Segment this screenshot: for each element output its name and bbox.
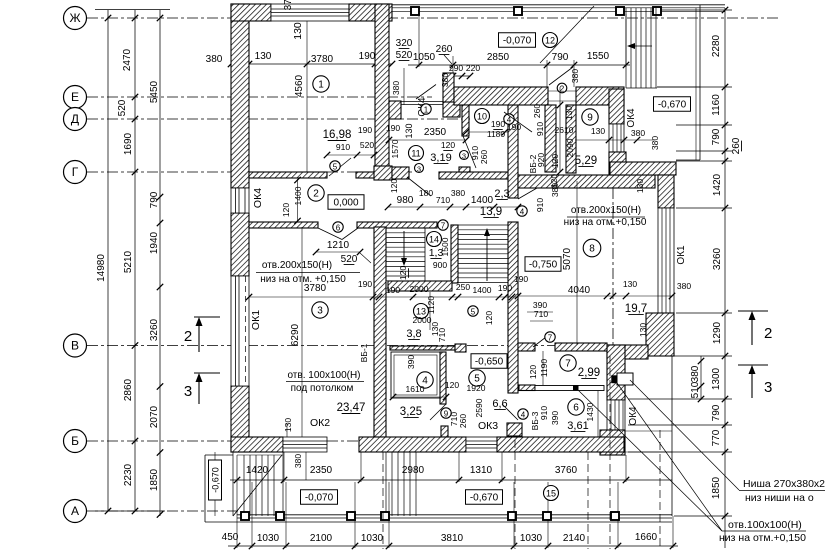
door4 bubble a — [504, 114, 514, 124]
svg-text:2230: 2230 — [123, 463, 134, 486]
svg-text:3780: 3780 — [311, 54, 334, 65]
svg-text:2000: 2000 — [413, 315, 432, 325]
window OK1 right — [658, 208, 674, 313]
top extensions — [418, 12, 420, 67]
room6 label — [568, 399, 584, 415]
svg-text:120: 120 — [528, 365, 538, 379]
svg-text:120: 120 — [441, 140, 455, 150]
svg-text:отв.200х150(Н): отв.200х150(Н) — [262, 260, 332, 271]
room8 label — [583, 239, 601, 257]
svg-text:3260: 3260 — [712, 247, 723, 270]
svg-text:6290: 6290 — [290, 323, 301, 346]
svg-text:4: 4 — [520, 207, 525, 216]
svg-text:1850: 1850 — [149, 468, 160, 491]
level 0.000 — [328, 195, 364, 210]
svg-text:под потолком: под потолком — [291, 383, 354, 394]
svg-text:520: 520 — [341, 254, 358, 265]
wall room8 northeast band — [610, 162, 676, 175]
svg-text:1210: 1210 — [327, 240, 350, 251]
svg-text:6: 6 — [336, 223, 341, 232]
wall room3 east / stair west — [374, 227, 386, 437]
svg-text:380: 380 — [451, 188, 465, 198]
top chain dim line — [408, 64, 630, 66]
wall room1 south junction — [374, 166, 392, 180]
svg-text:1660: 1660 — [635, 532, 658, 543]
svg-text:380: 380 — [440, 73, 450, 87]
svg-text:8: 8 — [589, 243, 595, 254]
svg-text:1400: 1400 — [471, 195, 494, 206]
wall north block top east — [576, 87, 624, 105]
bottom extensions — [236, 455, 238, 548]
svg-text:2350: 2350 — [424, 127, 447, 138]
svg-text:-0,670: -0,670 — [658, 99, 687, 110]
svg-text:2: 2 — [764, 325, 772, 342]
svg-text:-0,670: -0,670 — [470, 492, 499, 503]
svg-text:790: 790 — [149, 191, 160, 208]
svg-text:1190: 1190 — [539, 359, 549, 378]
wall room7 north west part — [518, 343, 535, 351]
svg-text:190: 190 — [358, 279, 372, 289]
svg-text:ОК2: ОК2 — [310, 417, 330, 429]
axis 6 vertical line — [612, 88, 614, 455]
svg-text:120: 120 — [398, 266, 408, 280]
wall left exterior upper — [231, 4, 249, 188]
svg-text:13,9: 13,9 — [480, 206, 502, 218]
door5 bubble — [330, 161, 340, 171]
wall hall south — [249, 222, 318, 228]
svg-text:2470: 2470 — [122, 48, 133, 71]
door4 bubble c — [518, 409, 528, 419]
svg-text:1920: 1920 — [467, 383, 486, 393]
svg-text:1420: 1420 — [246, 465, 269, 476]
svg-text:380: 380 — [391, 81, 401, 95]
niche leader 2 — [577, 389, 722, 531]
svg-text:1500: 1500 — [440, 237, 450, 256]
wall divider stub — [459, 167, 470, 172]
wall room8 north — [518, 175, 655, 188]
door 7 opening — [533, 334, 550, 347]
wall stair middle lower — [508, 222, 518, 393]
stair lower band — [388, 281, 452, 291]
axis bubble Г — [64, 161, 87, 184]
niche leader 3 — [617, 383, 722, 531]
svg-text:980: 980 — [397, 195, 414, 206]
svg-text:190: 190 — [498, 283, 512, 293]
bottom dim line 1 — [230, 479, 672, 481]
wall top-left — [231, 4, 271, 21]
wall room11 pier — [389, 101, 401, 119]
svg-text:1: 1 — [318, 79, 324, 90]
wall rooms10-11 divider — [462, 105, 469, 136]
svg-text:380: 380 — [690, 365, 701, 382]
room15 label — [544, 486, 559, 501]
corridor dims — [388, 206, 518, 208]
svg-text:900: 900 — [433, 260, 447, 270]
room1 top dim line — [231, 63, 392, 65]
svg-text:3,8: 3,8 — [406, 328, 421, 340]
svg-text:3: 3 — [184, 383, 192, 400]
window OK4 lower right — [607, 400, 625, 430]
svg-text:190: 190 — [386, 123, 400, 133]
steps bottom left — [243, 455, 245, 516]
level -0.670 right — [654, 97, 691, 112]
axis bubble Е — [64, 86, 87, 109]
axis bubble Д — [64, 108, 87, 131]
wall room8 southeast band — [607, 345, 648, 359]
porch left edge — [204, 455, 206, 522]
door 5 opening — [329, 158, 351, 176]
window OK2 — [283, 437, 327, 452]
svg-text:2860: 2860 — [123, 378, 134, 401]
svg-text:260: 260 — [436, 44, 453, 55]
level -0.750 — [525, 257, 561, 272]
stair flight left — [386, 227, 425, 229]
svg-text:А: А — [71, 504, 79, 518]
room11 label — [409, 146, 424, 161]
svg-text:910: 910 — [539, 406, 549, 420]
room12 label — [543, 33, 558, 48]
svg-text:2: 2 — [313, 188, 319, 199]
wall left exterior middle — [231, 213, 249, 276]
door5 bubble b — [468, 306, 478, 316]
level -0.070 top — [499, 33, 536, 48]
svg-text:1030: 1030 — [520, 533, 543, 544]
svg-text:390: 390 — [406, 355, 416, 369]
svg-text:11: 11 — [411, 148, 420, 158]
svg-text:520: 520 — [117, 99, 128, 116]
right dim line — [724, 8, 726, 548]
wall hall north piece — [392, 167, 409, 179]
wall rooms7-6 east — [607, 345, 625, 400]
svg-text:низ на отм.+0,150: низ на отм.+0,150 — [564, 217, 647, 228]
svg-text:380: 380 — [570, 69, 580, 83]
steps top right — [625, 8, 627, 88]
wall north block top — [454, 87, 548, 105]
svg-text:4040: 4040 — [568, 285, 591, 296]
svg-text:15: 15 — [546, 488, 556, 498]
room4 dims — [393, 396, 446, 398]
wall stub room5 — [507, 423, 522, 436]
svg-text:120: 120 — [484, 311, 494, 325]
wall room8 east pier — [646, 313, 674, 356]
axis А line — [87, 510, 240, 512]
svg-text:1160: 1160 — [711, 94, 722, 116]
wall mid shaft — [545, 105, 556, 172]
axis bubble А — [64, 500, 87, 523]
svg-text:1850: 1850 — [711, 476, 722, 499]
svg-text:260: 260 — [731, 137, 742, 154]
niche dim line — [700, 356, 702, 400]
svg-text:10: 10 — [477, 111, 487, 121]
room2 label — [308, 185, 324, 201]
svg-text:2100: 2100 — [310, 533, 333, 544]
svg-text:ОК4: ОК4 — [626, 108, 637, 128]
svg-text:Д: Д — [71, 112, 79, 126]
svg-text:низ на отм.+0,150: низ на отм.+0,150 — [719, 532, 806, 544]
svg-text:-0,070: -0,070 — [305, 492, 334, 503]
left dim top extension — [95, 9, 170, 11]
svg-text:7: 7 — [441, 221, 446, 230]
svg-text:1550: 1550 — [587, 51, 610, 62]
axis bubble В — [64, 334, 87, 357]
room1 door dims — [327, 154, 374, 156]
svg-text:2980: 2980 — [402, 465, 425, 476]
room11 dim line — [389, 139, 466, 141]
svg-text:14980: 14980 — [96, 254, 107, 282]
svg-text:790: 790 — [711, 404, 722, 421]
porch bottom edge — [237, 514, 672, 516]
wall room9 east lower — [609, 152, 626, 175]
room9 label — [582, 109, 598, 125]
section marker 2 left — [194, 316, 220, 318]
wall hall south east — [357, 222, 437, 228]
svg-text:23,47: 23,47 — [337, 402, 366, 414]
svg-text:120: 120 — [445, 380, 459, 390]
svg-text:1030: 1030 — [257, 533, 280, 544]
svg-text:180: 180 — [419, 188, 433, 198]
svg-text:ОК4: ОК4 — [628, 406, 639, 426]
svg-text:250: 250 — [456, 282, 470, 292]
axis Г line — [87, 171, 412, 173]
terrace top columns — [411, 7, 419, 15]
svg-text:320: 320 — [396, 38, 413, 49]
door 2 top — [549, 67, 573, 85]
door4 bubble b — [517, 206, 527, 216]
svg-text:7: 7 — [548, 333, 553, 342]
svg-text:-0,650: -0,650 — [475, 356, 504, 367]
svg-text:1050: 1050 — [413, 52, 436, 63]
svg-text:130: 130 — [635, 179, 645, 193]
bottom dim line 2 — [228, 545, 678, 547]
door6 bubble — [333, 222, 343, 232]
svg-text:5,29: 5,29 — [575, 155, 597, 167]
svg-text:3810: 3810 — [441, 533, 464, 544]
door3 bubble — [415, 164, 424, 173]
svg-text:390: 390 — [550, 411, 560, 425]
door1 bubble — [421, 104, 431, 114]
level -0.070 bottom — [301, 490, 338, 505]
svg-text:4560: 4560 — [294, 74, 305, 97]
level -0.670 left rotated — [209, 460, 222, 500]
svg-text:520: 520 — [396, 50, 413, 61]
level -0.650 — [471, 354, 507, 369]
svg-text:260: 260 — [458, 414, 468, 428]
wall stair middle — [508, 105, 518, 198]
wall top-right of room1 — [349, 4, 392, 21]
svg-text:1420: 1420 — [712, 173, 723, 196]
window top room1 — [271, 4, 349, 21]
svg-text:3: 3 — [764, 379, 772, 396]
svg-text:3: 3 — [317, 305, 323, 316]
svg-text:7: 7 — [565, 358, 571, 369]
svg-text:5: 5 — [471, 307, 476, 316]
svg-text:190: 190 — [359, 51, 376, 62]
window OK4 left — [231, 188, 249, 213]
svg-text:1310: 1310 — [470, 465, 493, 476]
svg-text:120: 120 — [389, 179, 399, 193]
room4 label — [417, 372, 433, 388]
door 1 threshold — [401, 101, 443, 103]
svg-text:130: 130 — [404, 123, 414, 138]
svg-text:2,3: 2,3 — [494, 188, 509, 200]
wall north block west corner — [443, 102, 460, 117]
svg-text:1300: 1300 — [711, 367, 722, 390]
svg-text:710: 710 — [534, 309, 548, 319]
svg-text:2610: 2610 — [555, 125, 574, 135]
svg-text:Б: Б — [71, 434, 79, 448]
svg-text:Е: Е — [71, 90, 79, 104]
section marker 3 right — [738, 364, 768, 366]
svg-text:6,6: 6,6 — [492, 398, 507, 410]
room3 width dim — [249, 296, 518, 298]
svg-text:710: 710 — [437, 328, 447, 342]
axis Е line — [87, 96, 432, 98]
room1 label — [313, 76, 329, 92]
svg-text:130: 130 — [623, 279, 637, 289]
svg-text:790: 790 — [711, 128, 722, 145]
right extensions — [657, 9, 732, 11]
svg-text:2: 2 — [560, 84, 565, 93]
svg-text:380: 380 — [206, 54, 223, 65]
stair middle wall — [451, 225, 458, 283]
door 6 leafs — [318, 228, 342, 240]
section marker 2 right — [738, 310, 768, 312]
svg-text:380: 380 — [677, 281, 691, 291]
svg-text:770: 770 — [711, 429, 722, 446]
svg-text:3260: 3260 — [149, 318, 160, 341]
svg-text:260: 260 — [532, 104, 542, 118]
svg-text:130: 130 — [283, 418, 293, 432]
svg-text:5: 5 — [333, 162, 338, 171]
svg-text:5450: 5450 — [149, 80, 160, 103]
door 2 lintel — [548, 90, 576, 92]
svg-text:130: 130 — [638, 323, 648, 337]
svg-text:2: 2 — [184, 328, 192, 345]
svg-text:1: 1 — [424, 105, 429, 114]
terrace right edge — [699, 5, 701, 160]
axis В line — [87, 345, 672, 347]
room8 width dim — [518, 295, 672, 297]
stair arrow right up — [486, 232, 488, 281]
svg-text:9: 9 — [587, 112, 593, 123]
svg-text:2350: 2350 — [310, 465, 333, 476]
svg-text:5210: 5210 — [123, 250, 134, 273]
svg-text:920: 920 — [536, 153, 546, 167]
left dim line total — [107, 10, 109, 511]
svg-text:2280: 2280 — [711, 34, 722, 57]
steps ramp diagonal — [233, 455, 282, 516]
svg-text:Ж: Ж — [69, 11, 80, 25]
top mini dim 290 220 — [446, 75, 470, 77]
svg-text:130: 130 — [591, 126, 605, 136]
room9 dims — [575, 139, 655, 141]
svg-text:12: 12 — [545, 35, 555, 45]
svg-text:3: 3 — [417, 164, 421, 173]
wall room8 east upper — [658, 175, 674, 208]
svg-text:1690: 1690 — [123, 132, 134, 155]
svg-text:130: 130 — [292, 22, 304, 40]
steps bottom middle — [385, 452, 387, 516]
room5 label — [469, 370, 485, 386]
room14 bubble — [427, 232, 442, 247]
svg-text:низ ниши на о: низ ниши на о — [745, 492, 814, 504]
wall room7 north east part — [555, 343, 607, 351]
hall opening dim — [316, 251, 360, 253]
svg-text:120: 120 — [281, 203, 291, 217]
wall room4 east — [440, 352, 446, 404]
room7 label — [560, 355, 576, 371]
wall room1 east — [375, 4, 389, 178]
svg-text:190: 190 — [491, 119, 505, 129]
axis bubble Б — [64, 430, 87, 453]
svg-text:120: 120 — [550, 154, 560, 168]
svg-text:16,98: 16,98 — [323, 129, 352, 141]
wall room9 west — [566, 105, 576, 173]
wall room1 south east part — [356, 172, 376, 178]
svg-text:130: 130 — [564, 106, 574, 120]
svg-text:1940: 1940 — [149, 231, 160, 254]
wall southeast corner — [600, 430, 625, 455]
svg-text:220: 220 — [466, 63, 480, 73]
svg-text:910: 910 — [535, 122, 545, 136]
door9 bubble — [441, 408, 451, 418]
svg-text:380: 380 — [650, 136, 660, 150]
window OK1 left — [231, 276, 249, 386]
svg-text:190: 190 — [514, 274, 528, 284]
room8 height dim — [576, 181, 578, 345]
left dim line subtotals — [134, 10, 136, 511]
svg-text:260: 260 — [479, 150, 489, 164]
wall room4 stub — [441, 426, 448, 437]
wall bottom center — [359, 437, 466, 452]
svg-text:1570: 1570 — [390, 139, 400, 158]
svg-text:380: 380 — [631, 128, 645, 138]
room4 inner box — [391, 352, 440, 398]
svg-text:910: 910 — [535, 198, 545, 212]
wall room9 east upper — [609, 89, 624, 124]
door7 bubble b — [545, 332, 555, 342]
room13 bubble — [414, 304, 429, 319]
svg-text:Г: Г — [72, 165, 79, 179]
svg-text:1400: 1400 — [293, 186, 303, 205]
svg-text:290: 290 — [449, 63, 463, 73]
svg-text:790: 790 — [552, 52, 569, 63]
window OK3 bottom — [466, 437, 497, 452]
door2 bubble — [557, 83, 567, 93]
svg-text:-0,750: -0,750 — [529, 259, 558, 270]
svg-text:910: 910 — [336, 142, 350, 152]
svg-text:3,19: 3,19 — [430, 152, 451, 164]
svg-text:отв.100х100(Н): отв.100х100(Н) — [728, 519, 802, 531]
svg-text:19,7: 19,7 — [625, 303, 647, 315]
stair flight right — [458, 224, 508, 226]
svg-text:5070: 5070 — [562, 247, 573, 270]
wall bottom east — [497, 437, 624, 452]
wall room4 junction — [455, 344, 466, 352]
wall corridor north — [439, 172, 508, 179]
terrace top edge — [392, 4, 725, 6]
svg-text:1400: 1400 — [473, 285, 492, 295]
svg-text:В: В — [71, 339, 79, 353]
svg-text:2070: 2070 — [149, 405, 160, 428]
svg-text:2090: 2090 — [565, 138, 575, 157]
axis Ж line — [87, 17, 778, 19]
svg-text:6: 6 — [573, 402, 579, 413]
porch columns bottom — [241, 512, 249, 520]
svg-text:ОК1: ОК1 — [250, 310, 262, 330]
svg-text:Ниша 270х380х2: Ниша 270х380х2 — [743, 478, 825, 490]
porch right surface lines — [624, 430, 672, 432]
